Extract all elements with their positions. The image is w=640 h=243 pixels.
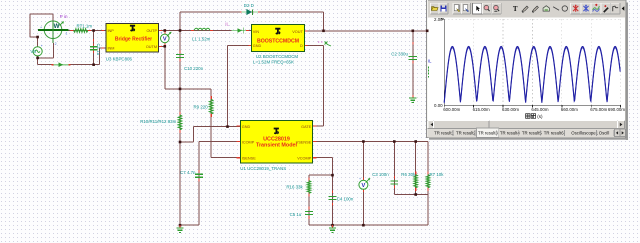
svg-text:660.00m: 660.00m <box>561 107 578 112</box>
svg-text:R10/R11/R12 83m: R10/R11/R12 83m <box>140 119 176 124</box>
svg-text:Oscilloscope1: Oscilloscope1 <box>571 130 598 135</box>
svg-text:Bridge Rectifier: Bridge Rectifier <box>115 36 152 42</box>
svg-text:R7 10k: R7 10k <box>430 172 445 177</box>
svg-text:645.00m: 645.00m <box>531 107 548 112</box>
svg-text:+: + <box>41 44 43 48</box>
svg-text:TR result4: TR result4 <box>500 130 520 135</box>
svg-text:C2 330u: C2 330u <box>391 51 408 56</box>
svg-text:INM: INM <box>108 47 115 51</box>
svg-text:R6 30k: R6 30k <box>401 172 416 177</box>
svg-text:V: V <box>163 37 167 43</box>
svg-text:INP: INP <box>108 29 115 33</box>
svg-text:R16 33k: R16 33k <box>286 184 303 189</box>
svg-text:615.00m: 615.00m <box>473 107 490 112</box>
svg-text:IL: IL <box>225 21 229 26</box>
svg-text:D: D <box>300 44 303 48</box>
svg-text:0.00: 0.00 <box>434 103 443 108</box>
svg-text:2.00: 2.00 <box>434 17 443 22</box>
svg-text:675.00m: 675.00m <box>590 107 607 112</box>
svg-text:Transient Model: Transient Model <box>256 142 298 148</box>
svg-text:690.00m: 690.00m <box>608 107 625 112</box>
svg-text:GND: GND <box>242 125 251 129</box>
svg-text:2: 2 <box>55 42 57 46</box>
svg-text:OUTP: OUTP <box>146 29 157 33</box>
svg-text:C3 100n: C3 100n <box>372 172 389 177</box>
svg-text:+: + <box>359 177 361 181</box>
svg-text:VIN: VIN <box>253 30 260 34</box>
svg-text:RT1 1m: RT1 1m <box>77 24 93 29</box>
svg-text:Oscill: Oscill <box>599 130 610 135</box>
svg-text:D2 D: D2 D <box>244 3 254 8</box>
svg-text:W: W <box>54 23 60 30</box>
svg-text:VCOMP: VCOMP <box>297 157 311 161</box>
svg-text:L1 1.52m: L1 1.52m <box>192 36 211 41</box>
svg-text:630.00m: 630.00m <box>502 107 519 112</box>
svg-text:T: T <box>513 5 518 13</box>
svg-text:C10 220n: C10 220n <box>184 66 204 71</box>
svg-text:GATE: GATE <box>301 125 312 129</box>
svg-text:U3 KBPC806: U3 KBPC806 <box>106 56 133 61</box>
svg-text:TR result2: TR result2 <box>456 130 476 135</box>
svg-text:U2 BOOSTCCMDCM: U2 BOOSTCCMDCM <box>256 54 299 59</box>
svg-text:ICOMP: ICOMP <box>242 140 255 144</box>
svg-text:L=1.52M FREQ=65K: L=1.52M FREQ=65K <box>253 59 294 64</box>
svg-text:TR result3: TR result3 <box>478 130 498 135</box>
svg-text:IL: IL <box>428 59 432 64</box>
svg-text:600.00m: 600.00m <box>443 107 460 112</box>
svg-text:VOUT: VOUT <box>292 30 303 34</box>
svg-text:TR result6: TR result6 <box>544 130 564 135</box>
svg-text:ISENSE: ISENSE <box>242 157 256 161</box>
svg-text:GND: GND <box>253 44 262 48</box>
svg-text:VS: VS <box>30 49 36 54</box>
svg-text:TR result5: TR result5 <box>522 130 542 135</box>
svg-text:V: V <box>362 183 366 189</box>
svg-text:TR result1: TR result1 <box>434 130 454 135</box>
svg-text:C4 100n: C4 100n <box>337 197 354 202</box>
svg-text:1: 1 <box>66 32 68 36</box>
svg-text:(s): (s) <box>537 114 543 119</box>
svg-text:C1 1u: C1 1u <box>96 44 101 56</box>
svg-text:VSENSE: VSENSE <box>296 140 312 144</box>
svg-text:U1 UCC28019_TRANS: U1 UCC28019_TRANS <box>240 166 286 171</box>
svg-text:OUTM: OUTM <box>146 45 157 49</box>
svg-text:P in: P in <box>60 14 68 19</box>
svg-text:C5 1u: C5 1u <box>290 212 302 217</box>
svg-text:C7 4.7n: C7 4.7n <box>180 170 196 175</box>
svg-text:+: + <box>160 31 162 35</box>
svg-text:R9 220: R9 220 <box>194 104 209 109</box>
svg-text:BOOSTCCMDCM: BOOSTCCMDCM <box>257 38 299 44</box>
svg-text:+: + <box>40 25 42 29</box>
